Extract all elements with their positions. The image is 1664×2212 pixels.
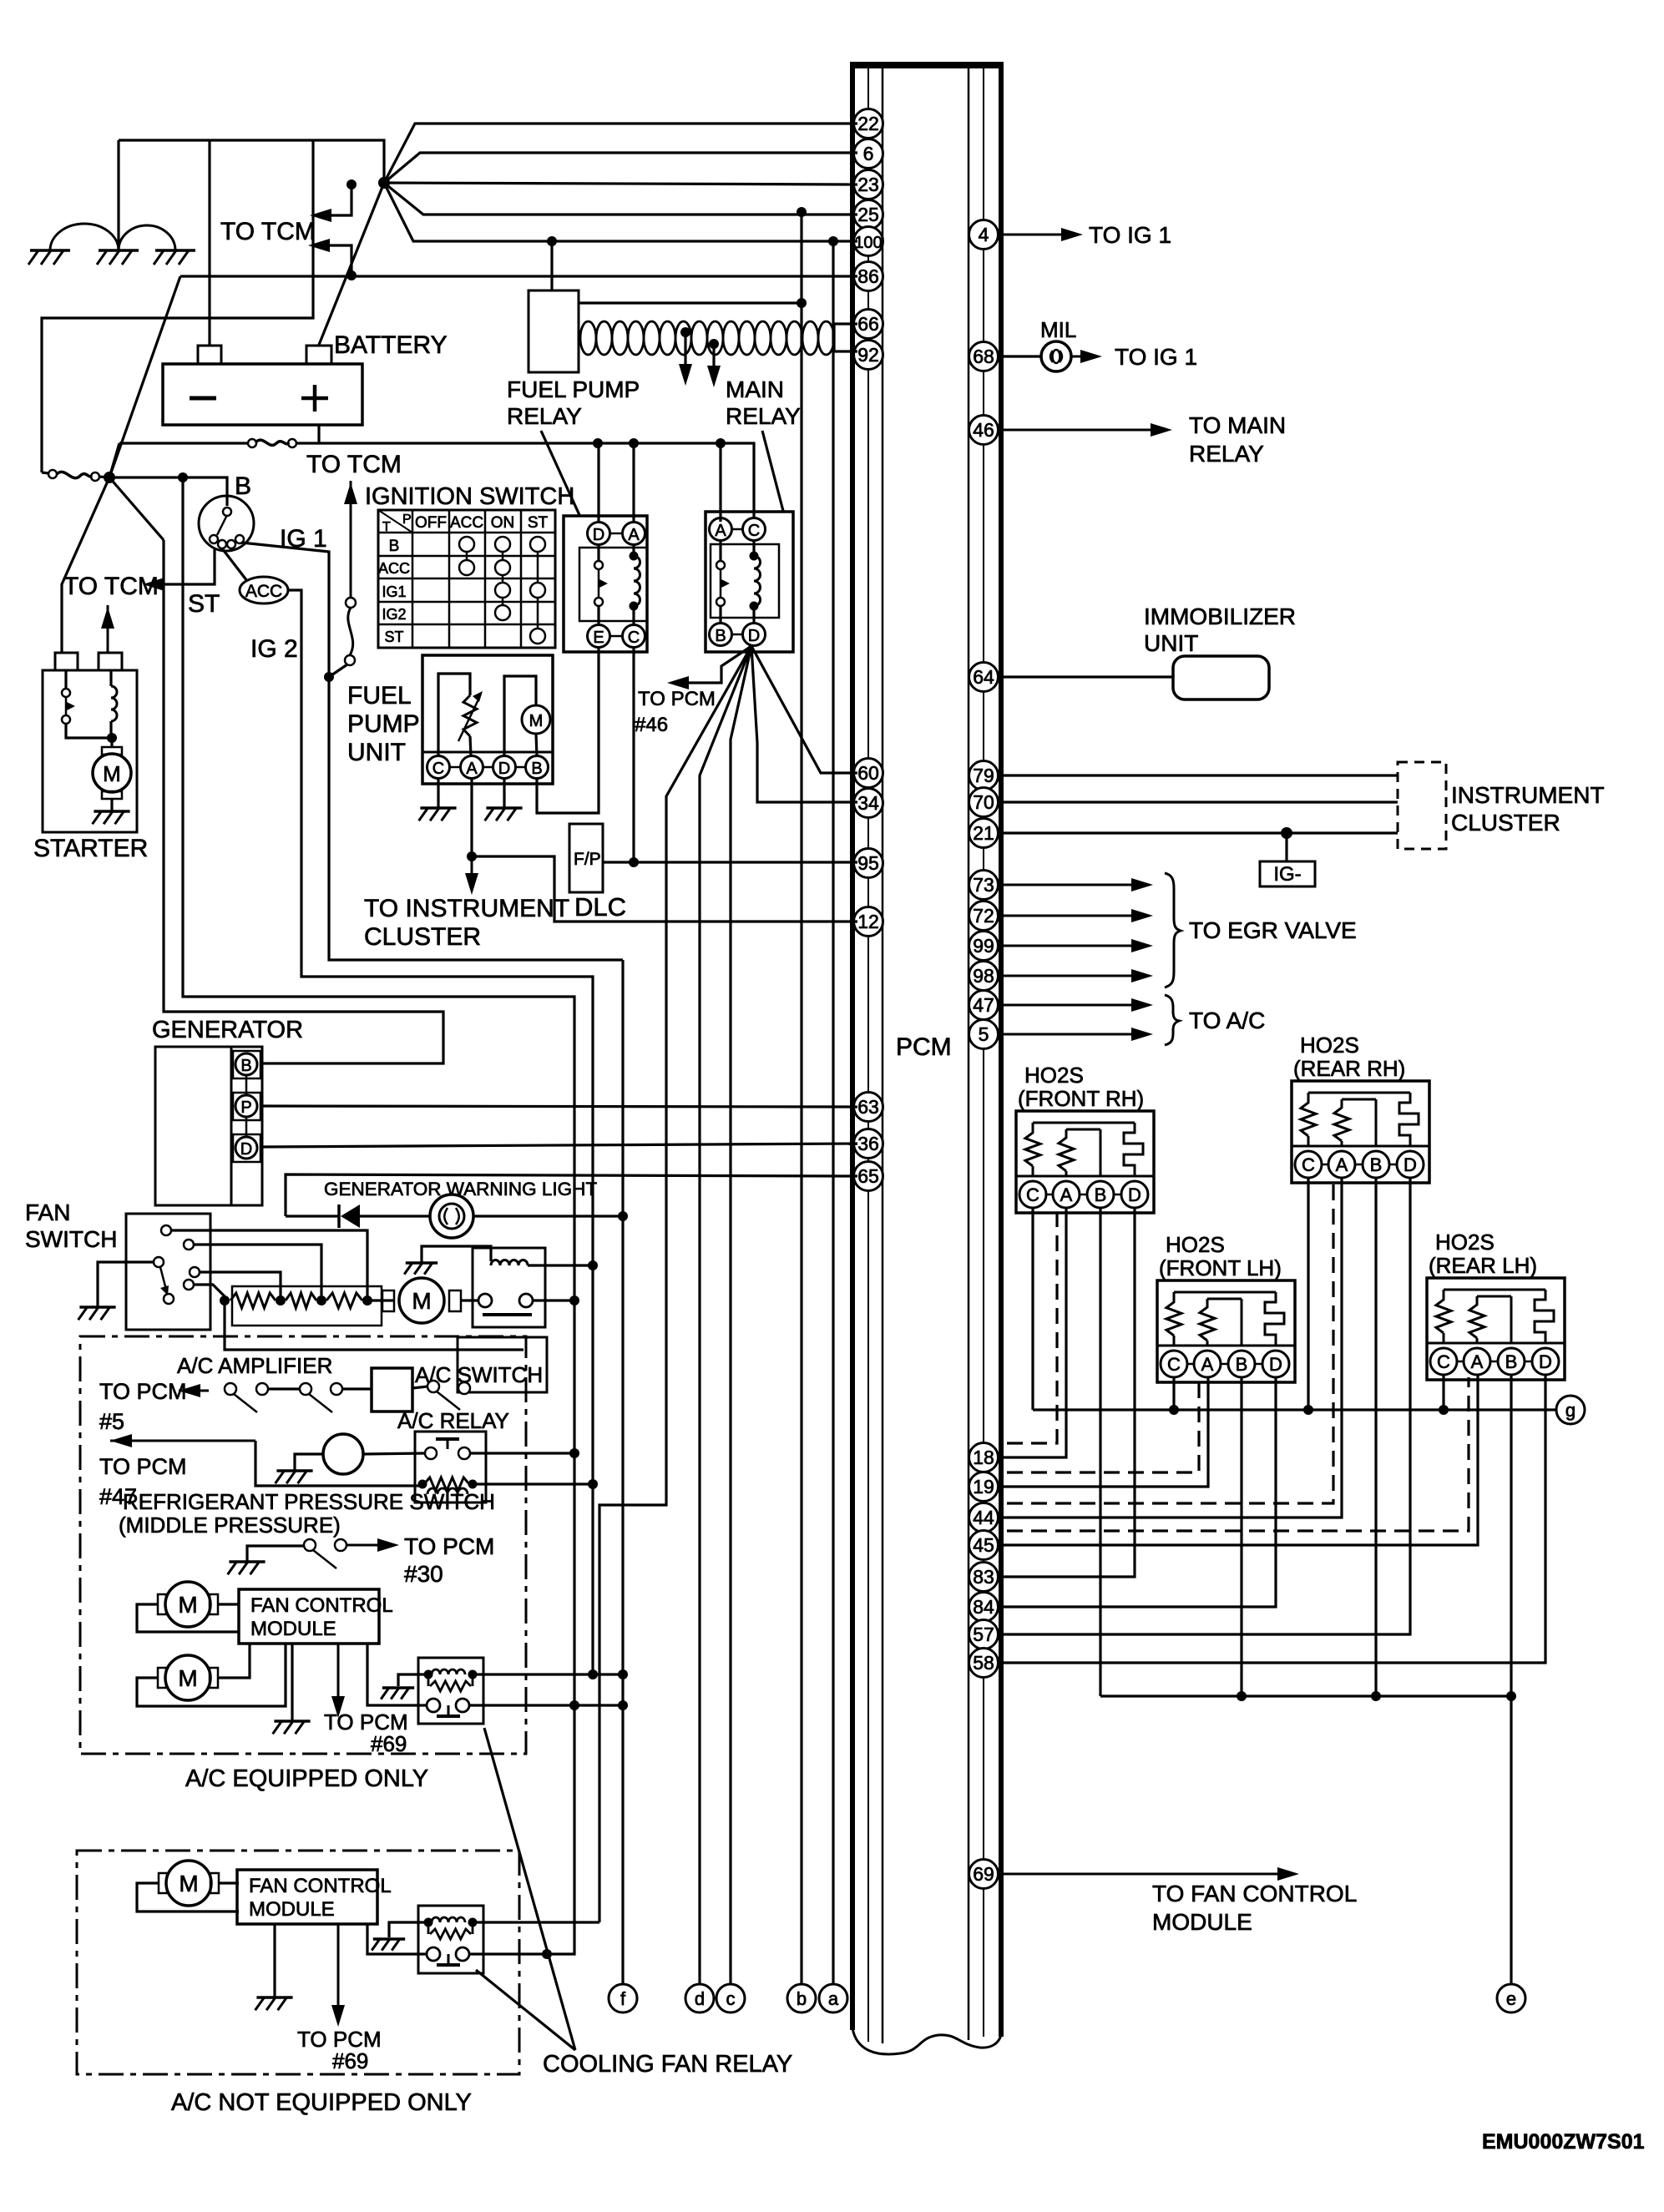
svg-text:FAN CONTROL: FAN CONTROL [249,1875,392,1897]
wire motor2 direct [218,1644,250,1678]
arrowhead TO MAIN RELAY [1151,423,1172,437]
fuel pump unit pin strip [422,751,553,754]
svg-text:C: C [1167,1354,1181,1375]
wire to pin 100 [384,183,857,241]
wire junction to B feed [109,476,183,478]
ac relay coil [427,1488,468,1494]
wire sender to pin 12 [472,856,857,922]
wire fp unit C ground [437,779,439,808]
wire lamp to f line [473,1215,623,1217]
MIL lamp inner [1053,350,1060,363]
starter box [43,670,137,832]
wire diag fuse line to junction [109,443,119,477]
junction fp relay A feed [629,438,639,448]
wire module ground [291,1644,293,1721]
wire to pin 23 [384,183,857,184]
wire relay2 coil out [473,1673,593,1675]
svg-text:CLUSTER: CLUSTER [364,923,481,951]
HO2S front RH [1016,1111,1154,1213]
wire pin19 to front LH A [1001,1377,1208,1487]
fp unit pin C [427,756,450,779]
junction b top [797,207,807,217]
svg-text:HO2S: HO2S [1024,1063,1084,1088]
wire component to b line [579,301,802,304]
ground pcm30 switch [229,1560,265,1563]
fp relay coil [634,556,640,606]
wire diode to lamp [360,1215,430,1217]
wire pin21 to cluster [1001,831,1398,834]
relay3 coil dot left [424,1918,433,1927]
wire resistor common down [225,1300,523,1350]
svg-text:A: A [1201,1354,1214,1375]
wire battery minus up [208,140,210,346]
svg-text:#46: #46 [635,714,668,736]
wire relay3 coil out [473,1921,599,1923]
HO2S rear LH pin B [1498,1348,1525,1375]
fan motor brush left [382,1290,394,1311]
HO2S rear RH heater [1399,1093,1419,1146]
relay1 contact right [519,1294,533,1307]
arrowhead chain tap 1 [679,364,692,386]
svg-text:64: 64 [973,666,994,688]
svg-text:(MIDDLE PRESSURE): (MIDDLE PRESSURE) [119,1513,341,1538]
svg-text:99: 99 [973,935,994,957]
generator pin D square [233,1134,260,1162]
junction heater bus rear RH [1371,1691,1381,1701]
HO2S rear RH pin C [1295,1151,1322,1178]
fuse F2 terminal [288,439,296,447]
svg-text:45: 45 [973,1534,994,1556]
junction b mid [797,298,807,308]
arrowhead module to pcm69 [331,1696,345,1718]
svg-text:A/C RELAY: A/C RELAY [397,1408,509,1433]
fan motor M [399,1278,444,1323]
fp relay contact arm [598,570,600,597]
wire generator B loop [164,540,443,1063]
PCM module outline (top bar) [850,62,1004,68]
ac switch arm [437,1391,460,1410]
HO2S front LH pin link [1174,1363,1276,1366]
wire relay2 coil ground [398,1674,428,1686]
svg-text:D: D [1269,1354,1282,1375]
arrowhead EGR 1 [1131,878,1153,891]
table ST column link [537,544,539,636]
svg-text:A: A [1060,1184,1073,1205]
main relay pin link top [721,528,754,531]
wire ground to pcm30 switch [247,1546,304,1562]
relay3 contact left [427,1947,440,1961]
wire B+ relay feed line [183,477,574,1954]
A/C amplifier box [372,1368,412,1412]
HO2S rear LH [1427,1278,1565,1380]
junction a top [828,236,838,246]
junction B feed [178,472,188,482]
PCM pin 95 [854,849,883,878]
HO2S rear RH pin link [1308,1164,1410,1166]
svg-text:COOLING FAN RELAY: COOLING FAN RELAY [543,2051,792,2078]
HO2S front RH heater [1124,1123,1143,1176]
cooling fan relay 1 coil [491,1260,528,1266]
fan motor 3 [159,1873,167,1893]
wire module2 to relay3 [367,1924,427,1954]
junction IG- tap [1281,827,1292,839]
ac relay coil resistor [424,1477,469,1491]
junction relay1 contact b+ line [569,1295,579,1305]
arrowhead TO IG1 MIL [1080,350,1102,363]
PCM inner line right channel [968,68,970,2040]
wire to pin 86 [180,275,857,277]
HO2S front RH pin A [1053,1181,1080,1208]
svg-text:#69: #69 [371,1731,407,1756]
svg-text:A: A [1471,1351,1484,1372]
wire to pin 92 [834,350,857,352]
wire amp to ac switch [412,1386,427,1388]
arrowhead TO TCM lower [308,239,330,252]
rotary wiper [217,515,227,535]
svg-text:B: B [715,627,726,645]
PCM pin 99 [969,932,999,961]
wire ACC line down [288,590,593,1674]
table contact circle [495,560,510,575]
starter contact b [62,715,70,724]
PCM pin 58 [969,1649,999,1678]
table row line [378,624,555,626]
fuel sender loop [438,674,470,756]
PCM right pin rail [983,68,984,2037]
main relay box [706,512,793,652]
PCM left pin rail [867,68,869,2042]
table contact circle [495,605,510,620]
HO2S front RH pin C [1019,1181,1046,1208]
relay2 coil dot left [424,1670,433,1679]
arrowhead chain tap 2 [707,366,721,387]
svg-text:SWITCH: SWITCH [25,1226,117,1252]
main relay pin D [743,624,766,646]
svg-text:D: D [748,627,760,645]
starter solenoid coil [111,686,117,721]
PCM pin 84 [969,1593,999,1622]
PCM pin 21 [969,819,999,848]
wire generator P to pin 63 [260,1106,857,1107]
HO2S rear RH [1292,1081,1429,1183]
wire motor to ground [110,799,113,811]
svg-text:g: g [1565,1400,1575,1421]
svg-text:UNIT: UNIT [347,739,406,766]
svg-text:UNIT: UNIT [1144,630,1198,656]
main relay pin C [743,518,766,541]
wire rear LH C down [1442,1375,1444,1410]
wire diagonal 86 to junction [109,276,180,477]
svg-text:TO TCM: TO TCM [63,573,159,600]
svg-text:6: 6 [863,143,874,164]
battery terminal plus [306,346,331,364]
arrowhead TO PCM 46 [667,676,689,689]
fuel pump relay pin A [623,523,645,545]
svg-text:ST: ST [384,629,403,645]
PCM pin 79 [969,761,999,790]
ac relay contact 2 [458,1447,470,1459]
ground G1 [30,249,70,252]
wire motor3 loop [137,1883,239,1912]
wire shield 19 [1007,1377,1199,1472]
wire rear RH C down [1307,1178,1309,1410]
svg-text:MODULE: MODULE [249,1898,335,1921]
svg-text:36: 36 [857,1133,879,1154]
ground relay1 coil [406,1261,437,1265]
HO2S rear RH pin B [1363,1151,1389,1178]
wire relay1 contact out [533,1299,574,1301]
HO2S front RH r2 lead [1065,1171,1068,1176]
PCM pin 19 [969,1472,999,1502]
svg-text:IG-: IG- [1273,863,1301,886]
svg-text:FAN CONTROL: FAN CONTROL [250,1594,393,1617]
wire fp relay C down [632,648,635,861]
svg-text:ACC: ACC [450,514,483,532]
relay1 contact bar [483,1313,532,1316]
svg-text:TO PCM: TO PCM [404,1533,494,1559]
wire rear LH D to pin58 [1001,1375,1545,1663]
fuel sender resistor [463,695,477,736]
svg-text:TO EGR VALVE: TO EGR VALVE [1189,917,1357,943]
svg-text:TO PCM: TO PCM [99,1454,187,1479]
svg-text:e: e [1506,1988,1516,2009]
rotary contact 4 [235,535,244,543]
ground fp unit C [420,806,456,810]
generator box [155,1047,231,1205]
svg-text:D: D [498,760,510,778]
main relay contact lead top [719,541,721,560]
junction ac relay contact [569,1448,579,1458]
wire IG1 from rotary [241,543,329,677]
svg-text:(REAR RH): (REAR RH) [1293,1056,1405,1081]
A/C switch box [458,1337,547,1392]
fan resistor 1 [230,1293,276,1308]
fp relay contact lead top [597,545,599,560]
wire fp relay D up [597,443,599,522]
svg-text:F/P: F/P [574,850,601,869]
wire amp sw1 to sw2 [268,1387,300,1390]
generator pin P [235,1095,257,1117]
wire ST to TCM [149,544,215,584]
starter motor brush bottom [102,791,122,799]
ground arc right [119,225,175,250]
svg-text:63: 63 [857,1096,879,1118]
svg-text:#30: #30 [404,1561,443,1587]
table column line [412,510,414,648]
wire motor1 loop [137,1604,239,1632]
wire fan speed low [194,1285,225,1296]
svg-text:HO2S: HO2S [1435,1230,1495,1255]
table ON column link [502,544,504,613]
instrument cluster dashed box [1398,762,1446,849]
wire fp relay A up [632,443,635,522]
HO2S rear RH pin A [1328,1151,1355,1178]
fuel pump motor lead [536,734,537,756]
wire fan speed 1 [200,1272,281,1300]
wire generator D to pin 36 [260,1144,857,1147]
cooling fan relay 2 box [418,1658,483,1724]
starter terminal 2 [99,653,122,670]
ignition switch table frame [378,510,555,648]
wire shield 44 [1007,1180,1333,1503]
junction relay2 contact b+ [569,1700,579,1710]
MIL lamp filament [1050,351,1062,362]
IG2 switch terminal top [346,598,356,608]
junction g rear LH [1439,1405,1449,1415]
wire warning light lamp line [286,1215,339,1217]
wire motor to relay contact [461,1299,478,1301]
wire to pin 66 [834,322,857,325]
ground module2 [256,1996,292,1999]
PCM inner line left channel [882,68,884,2043]
rotary contact 2 [218,540,226,548]
arrowhead EGR 2 [1131,909,1153,922]
svg-text:23: 23 [857,174,879,195]
relay3 coil resistor [430,1929,471,1939]
wire module to relay2 [367,1644,427,1705]
node a circle [819,1984,847,2013]
relay3 loop stub right [472,1922,474,1934]
brace AC [1165,995,1179,1045]
wire warning light frame [286,1174,857,1216]
svg-text:d: d [695,1988,705,2009]
svg-text:44: 44 [973,1507,994,1528]
svg-text:D: D [240,1140,252,1159]
table header diagonal [378,510,412,533]
fp relay coil dot top [630,552,639,561]
main relay coil dot top [750,552,759,561]
svg-text:18: 18 [973,1447,994,1468]
fuel pump relay box [564,516,647,652]
PCM pin 86 [854,262,883,291]
wire D to pin 60 [751,646,857,773]
svg-text:C: C [432,760,444,778]
main relay contact lead bottom [719,607,721,623]
fp relay coil dot bottom [630,602,639,611]
wire starter coil top [109,670,112,686]
svg-text:98: 98 [973,965,994,987]
wire battery plus diagonal to junction [319,183,384,345]
PCM pin 57 [969,1620,999,1649]
PCM pin 12 [854,907,883,937]
junction chain tap 2 [709,339,719,349]
svg-text:c: c [726,1988,736,2009]
arrowhead TO PCM 5 [179,1384,200,1397]
junction relay2 coil acc end [588,1669,598,1679]
svg-text:f: f [620,1988,626,2009]
callout cooling fan relay 1 [476,1970,575,2050]
PCM pin 44 [969,1503,999,1533]
cooling fan relay 1 box [473,1248,545,1327]
junction relay2 contact f [618,1700,628,1710]
table contact circle [530,583,545,598]
HO2S rear LH top rail [1444,1289,1545,1291]
junction fan resistor 0 [220,1295,230,1305]
relay2 coil dot right [468,1670,478,1679]
junction main B+ fan [378,177,390,189]
wire D to PCM46 arrow [673,646,751,683]
rotary contact B [223,508,231,516]
HO2S rear RH top rail [1308,1092,1410,1094]
fp relay coil lead top [632,545,635,556]
svg-text:RELAY: RELAY [726,403,801,429]
ground relay3 coil [373,1937,405,1941]
PCM pin 66 [854,310,883,339]
cooling fan relay 3 box [418,1906,483,1973]
wire front RH C down [1031,1208,1034,1410]
ignition rotary switch body [199,496,254,551]
ac amp switch c4 [331,1383,342,1395]
svg-text:TO PCM: TO PCM [99,1379,187,1404]
HO2S rear RH sense lead [1375,1099,1378,1146]
PCM pin 46 [969,416,999,445]
ground fan switch [79,1305,115,1309]
pcm30 switch c2 [335,1539,346,1551]
PCM left thick edge [850,65,855,2030]
HO2S rear LH r1 lead [1443,1333,1445,1343]
wire ac relay contact out [470,1452,574,1454]
starter motor brush top [102,747,122,755]
svg-text:57: 57 [973,1624,994,1645]
wire resistor to motor [367,1299,394,1301]
generator pin B [235,1053,257,1075]
relay2 loop stub right [472,1674,474,1686]
svg-text:(FRONT LH): (FRONT LH) [1159,1255,1282,1280]
junction fan resistor 1 [276,1295,286,1305]
wire D fan line 3 [731,646,751,1984]
wire relay3 coil ground [389,1922,428,1937]
fp relay contact top [594,561,603,569]
refrigerant pressure switch [323,1434,363,1474]
HO2S rear LH sense lead [1510,1296,1513,1343]
svg-text:92: 92 [857,344,879,366]
svg-text:B: B [240,1057,251,1075]
svg-text:25: 25 [857,204,879,225]
svg-text:C: C [1026,1184,1039,1205]
wire D fan line 1 [599,646,751,1922]
PCM pin 73 [969,871,999,900]
junction relay1 coil acc line [588,1260,598,1270]
junction fp relay D feed [593,438,603,448]
main relay inner box [711,544,779,618]
PCM pin 47 [969,991,999,1020]
HO2S rear RH resistor 2 [1334,1099,1349,1141]
svg-text:4: 4 [979,224,989,245]
junction chain tap 1 [680,327,690,337]
svg-text:INSTRUMENT: INSTRUMENT [1451,782,1605,808]
ac relay coil dot left [418,1480,427,1489]
svg-text:HO2S: HO2S [1166,1232,1225,1257]
PCM pin 69 [969,1860,999,1889]
table contact circle [530,537,545,552]
HO2S front LH pin B [1228,1351,1255,1377]
svg-text:(FRONT RH): (FRONT RH) [1018,1086,1144,1111]
wire pressure switch ground [295,1454,324,1471]
wire fused B+ feed right [297,443,754,518]
main relay contact bottom [716,598,725,606]
wire motor1 direct [218,1603,239,1605]
callout main relay [762,431,783,511]
IG2 switch terminal bottom [345,655,355,665]
HO2S front LH sense bar [1207,1298,1242,1300]
fan resistor box [232,1286,382,1326]
node f circle [609,1984,637,2013]
svg-text:A/C EQUIPPED ONLY: A/C EQUIPPED ONLY [185,1765,428,1792]
arrowhead ST TO TCM [143,578,164,591]
main relay coil [754,556,761,606]
PCM bottom torn edge [852,2028,1001,2054]
wire pin68 to MIL [1001,355,1042,357]
